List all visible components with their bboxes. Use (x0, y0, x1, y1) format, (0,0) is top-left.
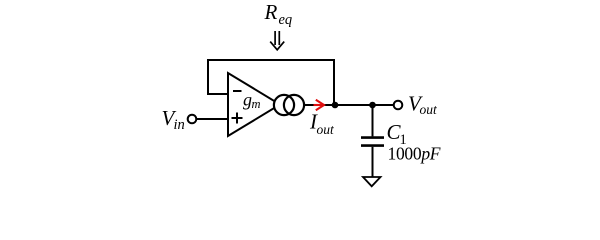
svg-text:1000pF: 1000pF (388, 143, 441, 163)
wire V_in to + input (197, 118, 228, 120)
op-amp U1 (transconductance amplifier) (228, 73, 280, 136)
wire current source output to V_out (304, 104, 394, 106)
svg-text:eq: eq (279, 12, 293, 28)
label V_in (162, 106, 185, 133)
label V_out (408, 92, 438, 118)
svg-text:out: out (317, 122, 336, 137)
wire feedback loop: output node up, across top, down to inverting input (208, 60, 334, 105)
minus sign (inverting input) (233, 90, 242, 92)
label I_out (309, 110, 335, 137)
node V_out terminal (394, 101, 403, 110)
value label 1000pF (388, 143, 441, 163)
node junction (capacitor tap) (369, 102, 376, 109)
plus sign (non-inverting input) (232, 113, 243, 124)
label g_m (243, 90, 261, 112)
wire capacitor to ground (372, 147, 374, 177)
node junction (feedback tap) (332, 102, 339, 109)
svg-text:m: m (252, 97, 261, 111)
svg-text:out: out (420, 102, 439, 117)
label R_eq (264, 0, 293, 28)
label C_1 (387, 120, 407, 148)
wire junction down to capacitor (372, 105, 374, 136)
ground (363, 177, 381, 186)
current source U1 output (two overlapping circles) (274, 95, 304, 115)
current arrow I_out (red) (314, 100, 325, 110)
double down arrow (270, 31, 284, 50)
capacitor C1 (361, 138, 384, 146)
svg-text:R: R (264, 0, 278, 24)
node V_in terminal (188, 115, 197, 124)
svg-text:in: in (174, 117, 185, 133)
